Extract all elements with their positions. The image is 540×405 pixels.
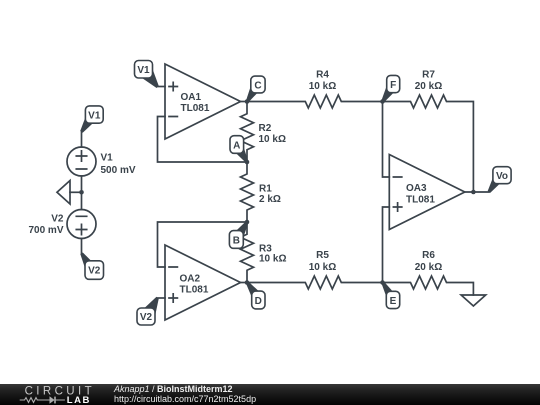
wire (241, 282, 248, 284)
svg-text:R7: R7 (422, 70, 435, 81)
ground (57, 181, 70, 205)
voltage source V1 (67, 147, 96, 176)
svg-text:TL081: TL081 (406, 195, 435, 206)
op-amp OA2 (165, 245, 241, 320)
wire (158, 297, 166, 299)
resistor R7 (383, 95, 474, 192)
svg-text:OA2: OA2 (180, 274, 201, 285)
svg-text:OA3: OA3 (406, 183, 427, 194)
svg-text:500 mV: 500 mV (101, 165, 136, 176)
wire (81, 176, 83, 210)
voltage source V2 (67, 210, 96, 239)
wire (383, 207, 390, 283)
output node junction (471, 190, 476, 195)
flag V1 at OA1 input (135, 61, 159, 89)
wire (81, 132, 83, 147)
flag V1 top-left (80, 106, 103, 133)
node B junction (245, 220, 250, 225)
flag V2 at OA2 input (137, 297, 159, 325)
resistor R5 (247, 276, 383, 289)
svg-text:F: F (390, 80, 396, 91)
flag node D (246, 281, 265, 309)
svg-text:A: A (233, 140, 240, 151)
wire (81, 239, 83, 254)
ground (461, 295, 486, 306)
svg-text:10 kΩ: 10 kΩ (309, 262, 336, 273)
resistor R2 (241, 102, 254, 163)
svg-text:700 mV: 700 mV (28, 225, 63, 236)
svg-text:20 kΩ: 20 kΩ (415, 262, 442, 273)
wire (465, 191, 489, 193)
node C junction (245, 99, 250, 104)
flag node E (381, 281, 399, 308)
svg-text:OA1: OA1 (181, 92, 202, 103)
flag node B (229, 221, 248, 248)
svg-text:TL081: TL081 (180, 285, 209, 296)
flag V2 bottom-left (80, 253, 103, 280)
wire (70, 191, 82, 193)
svg-text:10 kΩ: 10 kΩ (259, 254, 286, 265)
node junction (79, 190, 84, 195)
svg-text:V2: V2 (140, 312, 153, 323)
wire (158, 86, 166, 88)
svg-text:E: E (390, 296, 397, 307)
flag node A (230, 136, 248, 163)
op-amp OA1 (165, 64, 241, 139)
footer bar (0, 384, 540, 405)
footer attribution (114, 385, 233, 394)
flag node F (381, 75, 399, 102)
node A junction (245, 160, 250, 165)
svg-text:R5: R5 (316, 250, 329, 261)
flag node Vo (488, 167, 511, 193)
footer url (114, 395, 256, 404)
svg-text:V1: V1 (101, 153, 114, 164)
svg-text:20 kΩ: 20 kΩ (415, 81, 442, 92)
svg-text:2 kΩ: 2 kΩ (259, 194, 281, 205)
svg-text:Vo: Vo (496, 171, 508, 182)
wire (383, 102, 390, 178)
svg-text:D: D (255, 296, 262, 307)
svg-text:LAB: LAB (67, 395, 91, 405)
wire (158, 222, 248, 267)
resistor R1 (241, 162, 254, 222)
CircuitLab logo (19, 384, 99, 405)
svg-text:V1: V1 (88, 110, 101, 121)
wire (241, 101, 248, 103)
wire (158, 117, 248, 163)
svg-text:C: C (254, 80, 261, 91)
svg-text:TL081: TL081 (181, 103, 210, 114)
svg-text:10 kΩ: 10 kΩ (309, 81, 336, 92)
node F junction (380, 99, 385, 104)
svg-text:V1: V1 (137, 65, 150, 76)
svg-text:V2: V2 (88, 266, 101, 277)
resistor R4 (247, 95, 383, 108)
flag node C (246, 76, 265, 102)
resistor R6 (383, 276, 474, 295)
node E junction (380, 280, 385, 285)
svg-text:B: B (233, 235, 240, 246)
resistor R3 (241, 222, 254, 283)
svg-text:R2: R2 (259, 123, 272, 134)
node D junction (245, 280, 250, 285)
svg-text:R6: R6 (422, 250, 435, 261)
svg-text:10 kΩ: 10 kΩ (259, 134, 286, 145)
svg-text:V2: V2 (51, 213, 64, 224)
svg-text:R4: R4 (316, 70, 329, 81)
svg-text:R3: R3 (259, 243, 272, 254)
op-amp OA3 (389, 155, 465, 230)
